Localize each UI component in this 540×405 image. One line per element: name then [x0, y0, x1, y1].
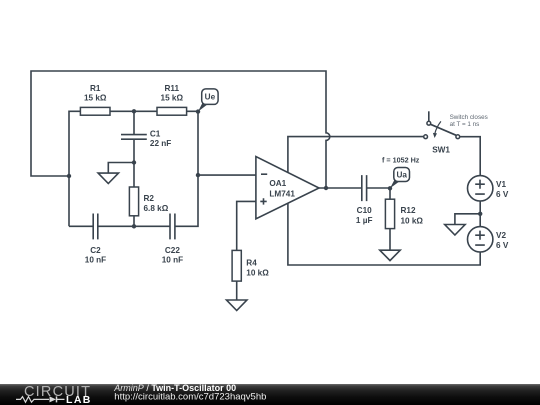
- capacitor C2: [93, 214, 98, 240]
- ground G4: [445, 225, 465, 236]
- node V1-V2-ground: [478, 212, 482, 216]
- svg-text:15 kΩ: 15 kΩ: [84, 94, 107, 103]
- svg-text:LM741: LM741: [269, 189, 295, 198]
- resistor R2: [129, 163, 138, 227]
- voltage source V2: [468, 227, 493, 252]
- svg-text:at T = 1 ns: at T = 1 ns: [450, 121, 480, 128]
- svg-text:R4: R4: [246, 259, 257, 268]
- svg-text:R12: R12: [401, 206, 416, 215]
- node R1 column / feedback: [67, 174, 71, 178]
- svg-text:10 kΩ: 10 kΩ: [401, 216, 424, 225]
- wire op-amp V- pin bottom rail to V2: [288, 203, 480, 265]
- wire feedback loop: output up over bump to top rail, left side down to R1 column: [31, 71, 330, 188]
- wire V1 to V2: [479, 201, 481, 227]
- wire inverting input row: [198, 174, 256, 176]
- wire op-amp V+ pin to switch: [288, 137, 424, 173]
- wire output row: [319, 187, 390, 189]
- resistor R4: [232, 250, 241, 281]
- svg-text:R11: R11: [165, 84, 180, 93]
- wire R1 input row: [69, 111, 198, 226]
- svg-text:OA1: OA1: [269, 179, 286, 188]
- junction node dots: [67, 109, 483, 228]
- ground G2: [227, 300, 247, 311]
- node R1-R11-C1: [132, 109, 136, 113]
- wire ground branch from C1 node: [108, 163, 134, 174]
- ground G1: [98, 173, 118, 183]
- svg-text:C2: C2: [90, 246, 101, 255]
- footer bar: [0, 384, 540, 405]
- svg-text:6.8 kΩ: 6.8 kΩ: [144, 204, 169, 213]
- svg-text:R2: R2: [144, 194, 155, 203]
- node C1-ground-R2: [132, 160, 136, 164]
- node R2-C2-C22: [132, 224, 136, 228]
- svg-text:15 kΩ: 15 kΩ: [161, 94, 184, 103]
- op-amp minus symbol: [261, 173, 267, 175]
- capacitor C1: [121, 135, 147, 140]
- svg-text:6 V: 6 V: [496, 241, 509, 250]
- svg-text:C10: C10: [357, 206, 372, 215]
- capacitor C10: [362, 175, 367, 201]
- svg-text:V2: V2: [496, 231, 506, 240]
- voltage source V1: [468, 176, 493, 201]
- node Ue: [196, 109, 200, 113]
- wire non-inverting input to R4: [237, 201, 256, 250]
- svg-text:V1: V1: [496, 180, 506, 189]
- op-amp OA1 triangle: [256, 157, 319, 219]
- svg-text:22 nF: 22 nF: [150, 139, 171, 148]
- node inverting input: [196, 173, 200, 177]
- wire switch to V1: [460, 137, 480, 177]
- ground G3: [380, 250, 400, 260]
- svg-text:SW1: SW1: [432, 146, 450, 155]
- resistor R12: [385, 188, 394, 250]
- capacitor C22: [170, 214, 175, 240]
- wire C2 bottom row: [69, 112, 198, 227]
- svg-text:C22: C22: [165, 246, 180, 255]
- svg-text:10 kΩ: 10 kΩ: [246, 269, 269, 278]
- svg-text:http://circuitlab.com/c7d723ha: http://circuitlab.com/c7d723haqv5hb: [114, 392, 266, 403]
- node label Ua: [390, 168, 410, 189]
- resistor R11: [157, 107, 187, 115]
- node label Ue: [198, 89, 218, 112]
- svg-text:1 µF: 1 µF: [356, 216, 373, 225]
- wire C1 branch: [133, 111, 135, 162]
- svg-text:Switch closes: Switch closes: [450, 114, 488, 121]
- svg-text:10 nF: 10 nF: [85, 256, 106, 265]
- wire R4 to ground: [236, 282, 238, 301]
- node output-feedback: [324, 186, 328, 190]
- svg-text:Ue: Ue: [205, 93, 216, 102]
- footer logo zigzag and diode: [16, 396, 65, 402]
- svg-text:C1: C1: [150, 129, 161, 138]
- resistor R1: [80, 107, 110, 115]
- wire ground branch from V1-V2 node: [455, 214, 480, 225]
- op-amp plus symbol: [260, 198, 266, 204]
- svg-text:LAB: LAB: [66, 394, 92, 405]
- svg-text:10 nF: 10 nF: [162, 256, 183, 265]
- switch SW1: [424, 111, 460, 138]
- svg-text:Ua: Ua: [396, 170, 407, 179]
- svg-text:6 V: 6 V: [496, 190, 509, 199]
- svg-text:R1: R1: [90, 84, 101, 93]
- node Ua-R12: [388, 186, 392, 190]
- svg-text:f = 1052 Hz: f = 1052 Hz: [382, 156, 420, 165]
